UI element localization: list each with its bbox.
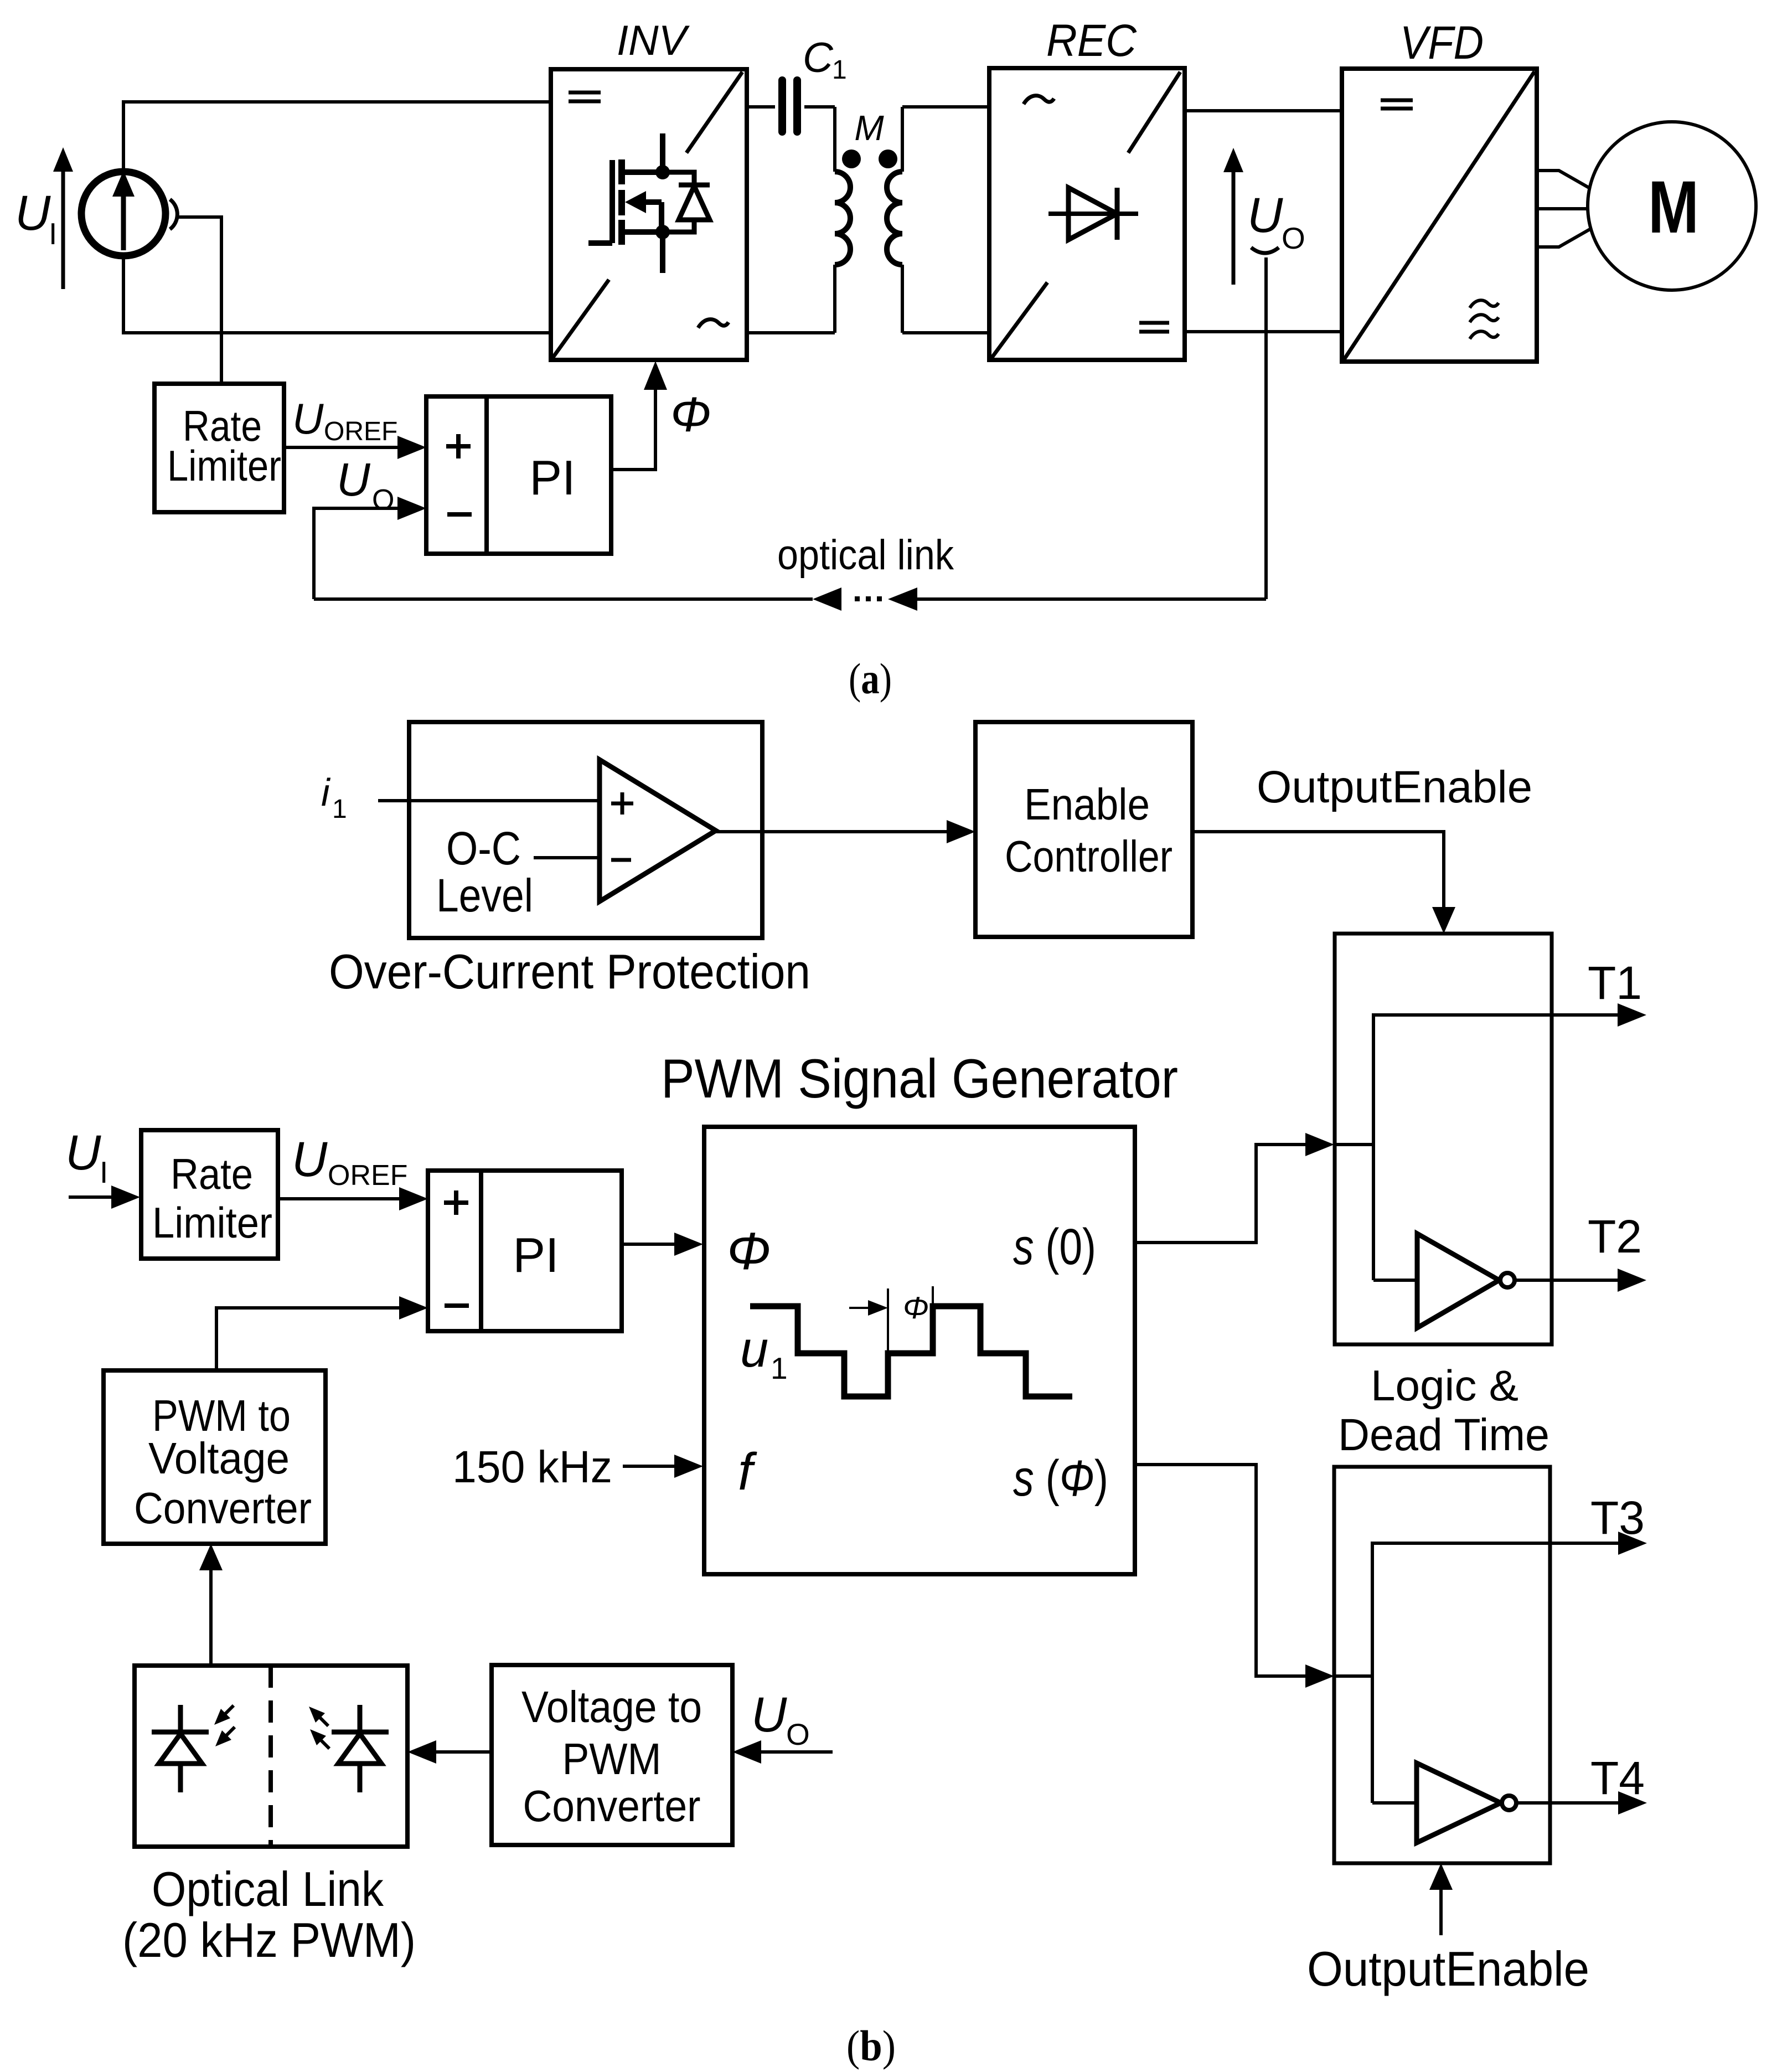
svg-text:U: U xyxy=(1247,187,1283,243)
svg-text:M: M xyxy=(1648,166,1699,249)
svg-text:Controller: Controller xyxy=(1005,832,1172,881)
label U_OREF (b) xyxy=(292,1131,407,1192)
svg-text:s (Φ): s (Φ) xyxy=(1013,1450,1108,1507)
svg-text:Dead Time: Dead Time xyxy=(1338,1410,1549,1460)
svg-text:Converter: Converter xyxy=(523,1781,701,1831)
current source U_I xyxy=(81,171,166,256)
svg-text:U: U xyxy=(65,1125,101,1180)
svg-text:U: U xyxy=(337,453,371,506)
summing junction + PI block (b) xyxy=(428,1171,622,1331)
block Logic & Dead Time 2 xyxy=(1334,1467,1647,1863)
dots on optical link xyxy=(855,596,882,601)
motor M xyxy=(1588,122,1756,290)
svg-text:T4: T4 xyxy=(1590,1752,1645,1804)
svg-text:Φ: Φ xyxy=(727,1222,771,1281)
wire INV out bottom xyxy=(747,331,835,334)
block Logic & Dead Time 1 xyxy=(1335,934,1646,1344)
svg-text:Logic &: Logic & xyxy=(1371,1361,1518,1410)
LED receiver left xyxy=(152,1705,209,1792)
svg-text:U: U xyxy=(292,394,324,443)
wire T4 output xyxy=(1516,1791,1647,1815)
svg-text:Voltage to: Voltage to xyxy=(521,1682,702,1731)
svg-text:150 kHz: 150 kHz xyxy=(452,1442,612,1492)
svg-text:optical link: optical link xyxy=(777,532,954,579)
wire to rate limiter xyxy=(176,217,221,384)
wire bottom bus xyxy=(123,256,551,333)
svg-text:PWM to: PWM to xyxy=(152,1391,291,1440)
inverter gate 1 xyxy=(1417,1234,1515,1328)
svg-text:s (0): s (0) xyxy=(1013,1219,1096,1275)
svg-text:(20 kHz PWM): (20 kHz PWM) xyxy=(122,1913,416,1967)
wire U_O feedback down xyxy=(1264,257,1268,599)
converter INV xyxy=(551,69,747,360)
svg-text:1: 1 xyxy=(771,1351,788,1385)
label U_O (b) xyxy=(751,1687,810,1751)
svg-text:PWM Signal Generator: PWM Signal Generator xyxy=(661,1048,1178,1109)
svg-text:Enable: Enable xyxy=(1024,780,1150,829)
svg-text:INV: INV xyxy=(617,17,690,64)
converter REC xyxy=(989,68,1185,360)
block Rate Limiter (a) xyxy=(154,384,284,512)
svg-text:PWM: PWM xyxy=(562,1734,662,1784)
transformer polarity dots xyxy=(842,150,897,168)
wire PI output (b) xyxy=(622,1233,703,1256)
wire secondary bottom xyxy=(902,331,989,334)
svg-text:U: U xyxy=(292,1131,328,1187)
svg-text:I: I xyxy=(49,217,57,251)
block Optical Link xyxy=(135,1666,407,1847)
svg-text:I: I xyxy=(100,1155,108,1189)
label U_O xyxy=(1247,187,1305,255)
block Enable Controller xyxy=(975,722,1192,937)
wire O-C level input xyxy=(534,856,600,859)
block Voltage to PWM Converter xyxy=(492,1665,732,1845)
photon arrows left xyxy=(214,1705,235,1746)
wire i1 input xyxy=(378,799,600,802)
arrow U_I direction xyxy=(53,147,73,289)
wire OutputEnable to logic box 1 xyxy=(1192,832,1455,934)
wire optical link feedback line xyxy=(314,587,1266,611)
wire VFD to motor middle xyxy=(1537,207,1587,210)
label Logic & Dead Time xyxy=(1338,1361,1549,1460)
label Optical Link xyxy=(122,1862,416,1967)
wire T2 output xyxy=(1515,1269,1646,1292)
svg-text:O: O xyxy=(1282,221,1305,255)
svg-text:Over-Current Protection: Over-Current Protection xyxy=(329,944,810,999)
arrow U_O xyxy=(1223,148,1243,285)
wire PWM2V to summing minus xyxy=(216,1296,428,1370)
inverter gate 2 xyxy=(1417,1763,1516,1843)
summing junction + PI block (a) xyxy=(426,396,611,554)
wire OutputEnable up arrow xyxy=(1429,1863,1453,1935)
label C1 xyxy=(803,34,847,85)
svg-text:Limiter: Limiter xyxy=(152,1198,272,1247)
wire comparator output xyxy=(716,820,975,843)
node pickoff arc xyxy=(170,199,177,229)
svg-text:Φ: Φ xyxy=(670,387,711,442)
block PWM to Voltage Converter xyxy=(104,1370,326,1544)
wire optical to PWM2V arrow xyxy=(199,1544,223,1666)
waveform u1 xyxy=(750,1286,1072,1396)
wire VFD to motor bottom xyxy=(1537,229,1590,247)
svg-text:OREF: OREF xyxy=(324,417,397,446)
svg-text:U: U xyxy=(751,1687,787,1742)
svg-text:Rate: Rate xyxy=(171,1150,253,1198)
label u1 xyxy=(740,1321,788,1385)
wire f input arrow xyxy=(623,1455,703,1478)
svg-text:OutputEnable: OutputEnable xyxy=(1257,762,1532,812)
wire U_I input arrow (b) xyxy=(69,1186,140,1209)
converter VFD xyxy=(1342,69,1537,362)
photon arrows right xyxy=(309,1707,329,1749)
wire U_O minus input (a) xyxy=(314,497,426,599)
label U_OREF (a) xyxy=(292,394,397,446)
block Rate Limiter (b) xyxy=(141,1130,278,1259)
wire REC to VFD bottom xyxy=(1185,330,1342,333)
wire VFD to motor top xyxy=(1537,171,1590,188)
wire U_OREF arrow (a) xyxy=(284,436,426,459)
svg-text:Level: Level xyxy=(436,869,533,921)
transistor MOSFET inside INV xyxy=(588,133,710,273)
svg-text:PI: PI xyxy=(529,450,575,505)
label U_O (a) xyxy=(337,453,394,516)
svg-text:Voltage: Voltage xyxy=(148,1434,290,1483)
svg-text:VFD: VFD xyxy=(1400,17,1484,69)
wire PI output phi (a) xyxy=(611,361,667,470)
transformer M secondary xyxy=(887,107,902,333)
wire s(phi) to logic box 2 xyxy=(1135,1465,1334,1688)
wire top bus xyxy=(123,102,551,172)
wire U_OREF arrow (b) xyxy=(278,1187,428,1210)
svg-text:M: M xyxy=(854,108,884,148)
wire V2P to optical link arrow xyxy=(407,1740,492,1764)
svg-text:1: 1 xyxy=(332,795,347,824)
label U_I (b) xyxy=(65,1125,108,1189)
wire secondary top xyxy=(902,105,989,109)
svg-text:T2: T2 xyxy=(1588,1210,1642,1262)
capacitor C1 xyxy=(747,80,835,132)
svg-text:O: O xyxy=(786,1717,810,1751)
svg-text:PI: PI xyxy=(513,1228,559,1282)
svg-text:Optical Link: Optical Link xyxy=(152,1862,384,1916)
svg-text:T3: T3 xyxy=(1590,1492,1645,1544)
svg-text:O: O xyxy=(372,484,394,516)
op-amp comparator xyxy=(600,760,716,901)
wire U_O input arrow (b) xyxy=(732,1740,833,1764)
svg-text:OREF: OREF xyxy=(328,1159,407,1192)
label i1 xyxy=(321,771,347,824)
diode inside REC xyxy=(1048,188,1138,240)
label U_I xyxy=(15,185,57,251)
svg-text:Limiter: Limiter xyxy=(167,441,281,490)
svg-text:i: i xyxy=(321,771,331,814)
svg-text:C: C xyxy=(803,34,834,81)
svg-text:OutputEnable: OutputEnable xyxy=(1307,1941,1589,1996)
svg-text:Φ: Φ xyxy=(903,1290,929,1325)
wire s(0) to logic box 1 xyxy=(1135,1133,1334,1243)
svg-text:(b): (b) xyxy=(846,2022,896,2070)
svg-text:(a): (a) xyxy=(849,654,892,703)
svg-text:T1: T1 xyxy=(1588,957,1642,1009)
svg-text:1: 1 xyxy=(832,55,847,85)
svg-text:REC: REC xyxy=(1046,16,1137,66)
svg-text:O-C: O-C xyxy=(446,822,521,874)
label O-C Level xyxy=(436,822,533,921)
svg-text:Converter: Converter xyxy=(134,1483,312,1533)
LED emitter right xyxy=(332,1705,389,1792)
block PWM Signal Generator xyxy=(704,1127,1135,1574)
breve under U_O xyxy=(1251,248,1279,253)
svg-text:U: U xyxy=(15,185,51,240)
svg-text:u: u xyxy=(740,1321,768,1378)
transformer M primary xyxy=(835,107,850,333)
wire REC to VFD top xyxy=(1184,109,1342,112)
block Over-Current Protection xyxy=(409,722,762,938)
